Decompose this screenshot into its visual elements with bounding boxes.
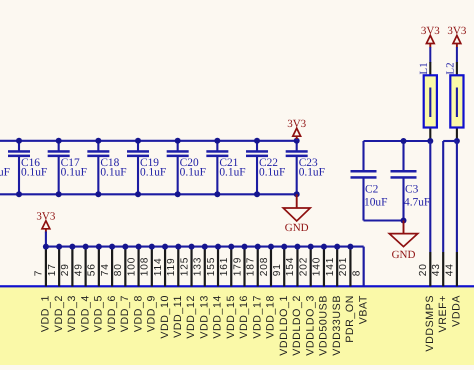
svg-text:VDD_8: VDD_8 xyxy=(132,295,144,332)
svg-text:91: 91 xyxy=(272,263,283,276)
svg-text:100: 100 xyxy=(126,257,137,276)
svg-text:56: 56 xyxy=(87,263,98,276)
svg-text:VDD_4: VDD_4 xyxy=(79,295,91,332)
svg-text:0.1uF: 0.1uF xyxy=(140,167,166,179)
svg-text:C3: C3 xyxy=(405,184,419,196)
svg-text:GND: GND xyxy=(285,222,309,234)
svg-text:0.1uF: 0.1uF xyxy=(0,167,10,179)
svg-text:0.1uF: 0.1uF xyxy=(259,167,285,179)
svg-text:154: 154 xyxy=(285,257,296,276)
svg-text:3V3: 3V3 xyxy=(287,118,306,130)
svg-text:VDD_12: VDD_12 xyxy=(185,295,197,339)
svg-text:202: 202 xyxy=(299,257,310,276)
svg-text:3V3: 3V3 xyxy=(421,25,440,37)
svg-text:7: 7 xyxy=(34,270,45,276)
svg-text:VDD_17: VDD_17 xyxy=(251,295,263,339)
svg-text:155: 155 xyxy=(206,257,217,276)
svg-text:VDD_9: VDD_9 xyxy=(146,295,158,332)
svg-text:43: 43 xyxy=(431,263,442,276)
svg-text:140: 140 xyxy=(312,257,323,276)
svg-text:17: 17 xyxy=(47,263,58,276)
svg-text:L1: L1 xyxy=(418,62,430,74)
svg-text:VBAT: VBAT xyxy=(357,295,369,324)
svg-text:VDD_10: VDD_10 xyxy=(159,295,171,339)
svg-text:VDD_5: VDD_5 xyxy=(93,295,105,332)
svg-text:VDD_11: VDD_11 xyxy=(172,295,184,338)
svg-text:74: 74 xyxy=(100,263,111,276)
svg-text:0.1uF: 0.1uF xyxy=(100,167,126,179)
svg-text:VDD_13: VDD_13 xyxy=(198,295,210,339)
svg-text:0.1uF: 0.1uF xyxy=(21,167,47,179)
svg-text:8: 8 xyxy=(351,270,362,276)
svg-text:49: 49 xyxy=(73,263,84,276)
svg-text:208: 208 xyxy=(259,257,270,276)
svg-text:161: 161 xyxy=(219,257,230,276)
svg-text:80: 80 xyxy=(113,263,124,276)
svg-text:PDR_ON: PDR_ON xyxy=(344,295,356,343)
svg-text:3V3: 3V3 xyxy=(447,25,466,37)
svg-text:VDDSMPS: VDDSMPS xyxy=(424,295,436,352)
svg-text:VDD_3: VDD_3 xyxy=(66,295,78,332)
svg-text:0.1uF: 0.1uF xyxy=(219,167,245,179)
svg-text:108: 108 xyxy=(140,257,151,276)
svg-text:VDD33USB: VDD33USB xyxy=(331,295,343,356)
svg-text:10uF: 10uF xyxy=(364,197,387,209)
svg-text:VDD_1: VDD_1 xyxy=(40,295,52,332)
svg-text:VDD50USB: VDD50USB xyxy=(318,295,330,356)
svg-text:0.1uF: 0.1uF xyxy=(299,167,325,179)
svg-text:29: 29 xyxy=(60,263,71,276)
svg-text:0.1uF: 0.1uF xyxy=(180,167,206,179)
svg-text:4.7uF: 4.7uF xyxy=(404,197,430,209)
svg-text:L2: L2 xyxy=(444,62,456,74)
svg-text:VDD_15: VDD_15 xyxy=(225,295,237,339)
svg-text:VDDLDO_1: VDDLDO_1 xyxy=(278,295,290,356)
svg-text:VDD_16: VDD_16 xyxy=(238,295,250,339)
svg-text:20: 20 xyxy=(418,263,429,276)
svg-text:201: 201 xyxy=(338,257,349,276)
svg-text:133: 133 xyxy=(193,257,204,276)
svg-text:GND: GND xyxy=(392,249,416,261)
svg-text:0.1uF: 0.1uF xyxy=(61,167,87,179)
svg-text:VREF+: VREF+ xyxy=(437,295,449,332)
svg-text:44: 44 xyxy=(445,263,456,276)
svg-text:VDD_2: VDD_2 xyxy=(53,295,65,332)
svg-text:114: 114 xyxy=(153,258,164,277)
svg-text:C2: C2 xyxy=(365,184,379,196)
svg-text:VDD_6: VDD_6 xyxy=(106,295,118,332)
svg-text:VDD_18: VDD_18 xyxy=(265,295,277,339)
svg-text:VDDLDO_3: VDDLDO_3 xyxy=(304,295,316,356)
svg-text:125: 125 xyxy=(179,257,190,276)
svg-text:179: 179 xyxy=(232,257,243,276)
svg-text:VDDLDO_2: VDDLDO_2 xyxy=(291,295,303,356)
svg-text:VDDA: VDDA xyxy=(451,295,463,327)
svg-text:119: 119 xyxy=(166,258,177,277)
svg-text:141: 141 xyxy=(325,257,336,276)
svg-text:VDD_7: VDD_7 xyxy=(119,295,131,332)
svg-text:187: 187 xyxy=(246,257,257,276)
svg-text:VDD_14: VDD_14 xyxy=(212,295,224,339)
svg-text:3V3: 3V3 xyxy=(36,211,55,223)
